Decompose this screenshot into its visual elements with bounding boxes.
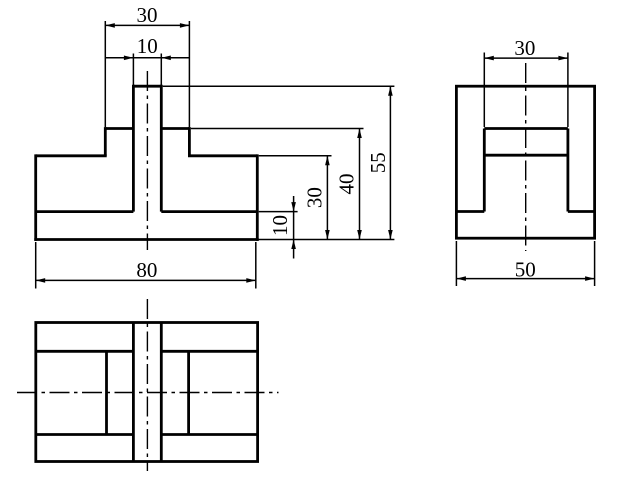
extension line from shoulder	[259, 155, 332, 157]
wire right edge	[256, 154, 259, 241]
wire lower horizontal left	[36, 433, 134, 436]
dimension 30 top	[105, 21, 189, 127]
svg-text:10: 10	[268, 215, 292, 236]
wire bar top edge	[133, 85, 161, 88]
side view center line	[525, 63, 527, 251]
wire bar right edge	[160, 85, 163, 212]
extension line from base top	[259, 211, 298, 213]
top view horizontal center line	[17, 392, 279, 394]
wire left shoulder	[36, 154, 107, 157]
svg-text:40: 40	[335, 174, 359, 195]
dimension 50 side	[456, 241, 594, 286]
wire right shoulder	[188, 154, 257, 157]
extension line from bar top	[163, 85, 395, 87]
wire right step horizontal	[161, 127, 189, 130]
wire upper horizontal left	[36, 350, 134, 353]
wire inner left vertical	[483, 129, 486, 212]
front view outline	[34, 85, 258, 241]
svg-text:50: 50	[515, 258, 536, 282]
dimension 80 bottom	[36, 242, 256, 289]
wire outer rectangle	[456, 86, 594, 238]
side view outline	[456, 86, 594, 238]
wire inner left vertical	[105, 351, 108, 434]
wire outer rectangle	[36, 323, 258, 462]
extension line from bottom	[257, 239, 394, 241]
wire left step vertical	[104, 127, 107, 156]
front view center line	[146, 71, 148, 250]
dimension 30 side	[484, 53, 568, 128]
svg-text:30: 30	[137, 3, 158, 27]
dimension 10 right	[293, 196, 295, 259]
wire bar left edge	[132, 85, 135, 212]
top view vertical center line	[146, 299, 148, 471]
top view outline	[36, 323, 258, 462]
wire base top left	[36, 210, 134, 213]
svg-text:80: 80	[136, 258, 157, 282]
svg-text:55: 55	[366, 152, 390, 173]
wire inner right vertical	[187, 351, 190, 434]
svg-text:30: 30	[514, 36, 535, 60]
wire inner top horizontal	[484, 127, 568, 130]
wire inner bottom right	[568, 210, 595, 213]
wire inner bottom left	[456, 210, 484, 213]
wire bottom edge	[34, 238, 258, 241]
wire left step horizontal	[105, 127, 133, 130]
wire base top right	[161, 210, 257, 213]
wire lower horizontal right	[161, 433, 257, 436]
wire inner right vertical	[567, 129, 570, 212]
wire bar left edge	[132, 323, 135, 462]
wire right step vertical	[188, 127, 191, 156]
svg-text:30: 30	[303, 187, 327, 208]
wire inner mid horizontal	[484, 154, 568, 157]
extension line from step	[191, 128, 364, 130]
dimension 10 top	[105, 54, 189, 86]
dimension 55 right	[389, 86, 391, 239]
dimension 30 right	[326, 156, 328, 240]
dimension 40 right	[359, 129, 361, 240]
wire left edge	[34, 154, 37, 241]
wire bar right edge	[160, 323, 163, 462]
wire upper horizontal right	[161, 350, 257, 353]
svg-text:10: 10	[137, 34, 158, 58]
